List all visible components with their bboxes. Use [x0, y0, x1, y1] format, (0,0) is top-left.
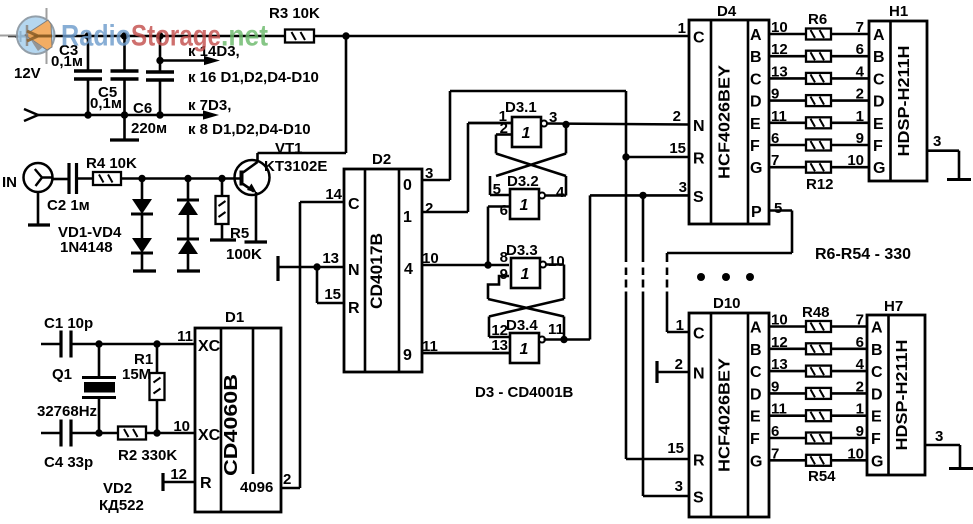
- svg-text:C: C: [750, 71, 762, 88]
- svg-text:R4 10K: R4 10K: [86, 155, 137, 172]
- svg-text:H1: H1: [889, 3, 908, 20]
- svg-text:D: D: [750, 386, 762, 403]
- svg-text:XC: XC: [198, 338, 221, 355]
- svg-text:F: F: [750, 138, 760, 155]
- svg-text:1: 1: [856, 108, 864, 125]
- svg-text:2: 2: [673, 108, 681, 125]
- svg-text:9: 9: [856, 423, 864, 440]
- svg-text:11: 11: [771, 108, 787, 125]
- svg-text:1: 1: [403, 209, 412, 226]
- svg-text:100K: 100K: [226, 246, 262, 263]
- svg-text:HDSP-H211H: HDSP-H211H: [894, 340, 911, 451]
- svg-text:13: 13: [322, 250, 339, 267]
- svg-text:1: 1: [521, 266, 530, 283]
- svg-text:7: 7: [856, 19, 864, 36]
- svg-text:2: 2: [675, 356, 683, 373]
- svg-text:2: 2: [856, 86, 864, 103]
- svg-text:C2 1м: C2 1м: [47, 197, 90, 214]
- svg-text:D3.1: D3.1: [505, 99, 537, 116]
- svg-text:G: G: [871, 453, 883, 470]
- svg-text:6: 6: [771, 130, 779, 147]
- svg-text:C: C: [693, 326, 705, 343]
- svg-text:7: 7: [771, 445, 779, 462]
- svg-text:10: 10: [771, 19, 788, 36]
- svg-text:15: 15: [324, 286, 341, 303]
- svg-text:1: 1: [678, 20, 686, 37]
- svg-text:C: C: [693, 30, 705, 47]
- svg-text:F: F: [873, 138, 883, 155]
- svg-text:к 16 D1,D2,D4-D10: к 16 D1,D2,D4-D10: [188, 69, 319, 86]
- svg-text:13: 13: [491, 337, 508, 354]
- svg-text:10: 10: [847, 152, 864, 169]
- svg-text:VT1: VT1: [275, 140, 303, 157]
- svg-text:32768Hz: 32768Hz: [37, 403, 97, 420]
- svg-text:3: 3: [933, 133, 941, 150]
- svg-text:1: 1: [520, 341, 529, 358]
- svg-text:10: 10: [771, 312, 788, 329]
- svg-text:E: E: [750, 116, 761, 133]
- svg-text:D2: D2: [372, 151, 391, 168]
- svg-text:4: 4: [856, 63, 865, 80]
- svg-text:2: 2: [856, 378, 864, 395]
- svg-text:13: 13: [771, 63, 788, 80]
- svg-text:15: 15: [667, 440, 684, 457]
- svg-text:R12: R12: [806, 176, 834, 193]
- svg-text:E: E: [750, 409, 761, 426]
- svg-text:R: R: [348, 300, 360, 317]
- svg-text:R: R: [693, 453, 705, 470]
- svg-text:4: 4: [404, 261, 413, 278]
- svg-text:12: 12: [771, 41, 788, 58]
- svg-text:5: 5: [493, 181, 501, 198]
- svg-text:HCF4026BEY: HCF4026BEY: [717, 358, 734, 472]
- svg-text:3: 3: [679, 179, 687, 196]
- svg-text:3: 3: [425, 165, 433, 182]
- svg-text:R: R: [693, 151, 705, 168]
- svg-text:A: A: [873, 27, 885, 44]
- svg-text:H7: H7: [884, 298, 903, 315]
- svg-text:4: 4: [556, 184, 565, 201]
- svg-text:12V: 12V: [14, 65, 41, 82]
- svg-text:9: 9: [403, 347, 412, 364]
- svg-text:N: N: [693, 366, 705, 383]
- svg-text:B: B: [750, 49, 762, 66]
- svg-text:R6: R6: [808, 11, 827, 28]
- svg-text:KT3102E: KT3102E: [264, 158, 327, 175]
- svg-text:Q1: Q1: [52, 366, 72, 383]
- svg-text:XC: XC: [198, 427, 221, 444]
- svg-text:1: 1: [856, 401, 864, 418]
- svg-text:N: N: [693, 118, 705, 135]
- svg-text:13: 13: [771, 356, 788, 373]
- svg-text:4096: 4096: [240, 479, 273, 496]
- svg-text:P: P: [751, 204, 762, 221]
- svg-text:D1: D1: [225, 309, 244, 326]
- svg-text:2: 2: [425, 200, 433, 217]
- svg-text:B: B: [873, 49, 885, 66]
- svg-text:R3 10K: R3 10K: [269, 5, 320, 22]
- svg-text:VD2: VD2: [103, 480, 132, 497]
- svg-text:.net: .net: [221, 20, 268, 53]
- svg-text:HCF4026BEY: HCF4026BEY: [717, 65, 734, 179]
- svg-text:D3.2: D3.2: [507, 173, 539, 190]
- svg-text:9: 9: [771, 378, 779, 395]
- svg-text:6: 6: [500, 202, 508, 219]
- svg-text:C: C: [871, 364, 883, 381]
- svg-text:9: 9: [856, 130, 864, 147]
- svg-text:A: A: [750, 320, 762, 337]
- svg-text:C4 33p: C4 33p: [44, 454, 93, 471]
- svg-text:10: 10: [422, 250, 439, 267]
- svg-text:15: 15: [669, 140, 686, 157]
- svg-text:КД522: КД522: [99, 497, 144, 514]
- svg-text:CD4060B: CD4060B: [221, 374, 241, 476]
- svg-text:10: 10: [548, 253, 565, 270]
- svg-text:R2 330K: R2 330K: [118, 447, 177, 464]
- svg-text:11: 11: [177, 328, 193, 345]
- svg-text:2: 2: [283, 471, 291, 488]
- svg-text:220м: 220м: [131, 120, 167, 137]
- svg-text:A: A: [871, 320, 883, 337]
- svg-text:S: S: [693, 490, 704, 507]
- svg-text:B: B: [750, 342, 762, 359]
- svg-text:7: 7: [771, 152, 779, 169]
- svg-text:0,1м: 0,1м: [51, 53, 83, 70]
- svg-text:E: E: [871, 409, 882, 426]
- svg-text:CD4017B: CD4017B: [368, 233, 386, 309]
- svg-text:1: 1: [676, 317, 684, 334]
- svg-text:1: 1: [522, 125, 531, 142]
- svg-text:1N4148: 1N4148: [60, 239, 113, 256]
- svg-text:G: G: [873, 160, 885, 177]
- svg-text:9: 9: [500, 266, 508, 283]
- svg-text:D3.4: D3.4: [506, 317, 538, 334]
- svg-text:R54: R54: [808, 468, 836, 485]
- svg-text:Storage: Storage: [131, 20, 221, 53]
- svg-text:5: 5: [774, 200, 782, 217]
- svg-text:F: F: [871, 431, 881, 448]
- svg-text:R: R: [200, 475, 212, 492]
- svg-text:C: C: [750, 364, 762, 381]
- svg-text:15M: 15M: [122, 366, 151, 383]
- svg-text:11: 11: [548, 321, 564, 338]
- svg-text:D3.3: D3.3: [506, 242, 538, 259]
- svg-text:C: C: [873, 71, 885, 88]
- svg-text:10: 10: [173, 418, 190, 435]
- svg-text:9: 9: [771, 86, 779, 103]
- svg-text:14: 14: [325, 186, 342, 203]
- svg-text:12: 12: [170, 466, 187, 483]
- svg-text:10: 10: [847, 445, 864, 462]
- svg-text:C: C: [348, 196, 360, 213]
- svg-text:1: 1: [520, 197, 529, 214]
- svg-text:N: N: [348, 262, 360, 279]
- svg-text:D10: D10: [713, 295, 741, 312]
- svg-text:4: 4: [856, 356, 865, 373]
- svg-text:R48: R48: [802, 304, 830, 321]
- svg-text:8: 8: [500, 249, 508, 266]
- svg-text:D: D: [750, 94, 762, 111]
- svg-text:3: 3: [935, 428, 943, 445]
- svg-text:B: B: [871, 342, 883, 359]
- svg-text:C1 10p: C1 10p: [44, 315, 93, 332]
- svg-text:HDSP-H211H: HDSP-H211H: [896, 46, 913, 157]
- svg-text:6: 6: [771, 423, 779, 440]
- svg-text:A: A: [750, 27, 762, 44]
- svg-text:12: 12: [771, 334, 788, 351]
- svg-text:3: 3: [675, 478, 683, 495]
- svg-text:Radio: Radio: [61, 20, 131, 53]
- svg-text:D3 - CD4001B: D3 - CD4001B: [475, 384, 574, 401]
- svg-text:D: D: [871, 386, 883, 403]
- svg-text:G: G: [750, 453, 762, 470]
- svg-text:IN: IN: [2, 174, 17, 191]
- svg-text:E: E: [873, 116, 884, 133]
- svg-text:R6-R54 - 330: R6-R54 - 330: [815, 246, 911, 263]
- svg-text:к 8 D1,D2,D4-D10: к 8 D1,D2,D4-D10: [188, 121, 311, 138]
- svg-text:S: S: [693, 189, 704, 206]
- svg-text:11: 11: [771, 401, 787, 418]
- svg-text:7: 7: [856, 312, 864, 329]
- svg-text:к 7D3,: к 7D3,: [188, 97, 231, 114]
- svg-text:6: 6: [856, 334, 864, 351]
- svg-text:0: 0: [403, 177, 412, 194]
- svg-text:0,1м: 0,1м: [90, 95, 122, 112]
- svg-text:6: 6: [856, 41, 864, 58]
- svg-text:D4: D4: [717, 3, 737, 20]
- svg-text:G: G: [750, 160, 762, 177]
- svg-text:F: F: [750, 431, 760, 448]
- svg-text:D: D: [873, 94, 885, 111]
